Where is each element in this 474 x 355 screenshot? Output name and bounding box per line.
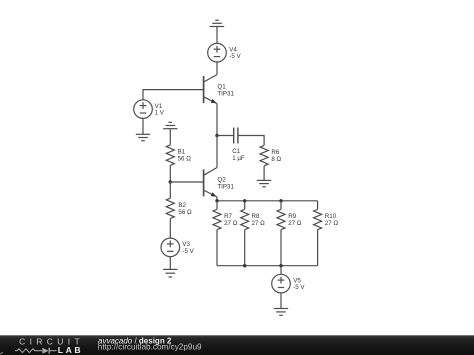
transistor Q2 TIP31 xyxy=(204,168,217,197)
svg-text:27 Ω: 27 Ω xyxy=(252,220,266,227)
wire C1 to R6 xyxy=(238,136,264,146)
ground below V1 xyxy=(136,118,150,140)
wire node to Q2 collector xyxy=(216,136,218,168)
transistor Q1 TIP31 xyxy=(204,75,217,104)
top rail wire xyxy=(217,200,318,202)
wire V1 to Q1 base xyxy=(143,90,204,100)
logo lead mark bottom-left xyxy=(0,352,3,355)
logo resistor squiggle xyxy=(15,349,42,353)
wire node to Q2 base xyxy=(170,181,203,183)
ground (flipped) above V4 xyxy=(210,20,224,43)
svg-text:27 Ω: 27 Ω xyxy=(288,220,302,227)
ground (flipped) above B1 xyxy=(163,122,177,145)
svg-text:56 Ω: 56 Ω xyxy=(178,209,192,216)
ground below V3 xyxy=(163,257,177,277)
svg-text:TIP31: TIP31 xyxy=(217,183,234,190)
capacitor C1 xyxy=(234,128,238,144)
voltage source V3 xyxy=(161,238,180,257)
resistor R6 xyxy=(260,145,268,165)
svg-text:56 Ω: 56 Ω xyxy=(178,156,192,163)
wire node to C1 left plate xyxy=(217,135,233,137)
wire B1 to node xyxy=(169,165,171,182)
wire Q1 emitter to node at C1 xyxy=(216,104,218,136)
svg-text:LAB: LAB xyxy=(58,345,83,355)
svg-text:1 µF: 1 µF xyxy=(232,155,245,162)
resistor R9 with leads xyxy=(277,201,285,266)
footer bar xyxy=(0,335,474,355)
bottom rail wire xyxy=(217,265,318,267)
logo diode xyxy=(42,348,48,354)
junction dot bottom rail/R8 xyxy=(243,264,246,267)
ground below R6 xyxy=(257,180,271,186)
wire B2 to V3 xyxy=(169,219,171,239)
resistor R10 with leads xyxy=(314,201,322,266)
wire node to B2 xyxy=(169,182,171,198)
svg-text:27 Ω: 27 Ω xyxy=(325,220,339,227)
svg-text:-5 V: -5 V xyxy=(293,284,305,291)
voltage source V4 xyxy=(208,43,227,62)
resistor R7 with leads xyxy=(213,201,221,266)
resistor B2 xyxy=(166,198,174,218)
junction dot rail/R8 xyxy=(243,199,246,202)
node junction B1/B2/Q2 base xyxy=(169,180,172,183)
junction dot rail/R9 xyxy=(279,199,282,202)
svg-text:-5 V: -5 V xyxy=(182,248,194,255)
svg-text:-5 V: -5 V xyxy=(229,53,241,60)
ground below V5 xyxy=(274,293,288,315)
voltage source V1 xyxy=(134,100,153,119)
resistor B1 xyxy=(166,145,174,165)
svg-text:8 Ω: 8 Ω xyxy=(271,156,281,163)
svg-text:1 V: 1 V xyxy=(155,110,165,117)
wire Q2 emitter to top rail xyxy=(216,197,218,201)
svg-text:http://circuitlab.com/cy2p9u9: http://circuitlab.com/cy2p9u9 xyxy=(98,343,202,352)
wire rail to V5 xyxy=(280,266,282,275)
junction dot bottom rail/V5 xyxy=(279,264,282,267)
junction dot emitter/R7/rail xyxy=(215,199,218,202)
svg-text:27 Ω: 27 Ω xyxy=(224,220,238,227)
svg-text:TIP31: TIP31 xyxy=(217,90,234,97)
voltage source V5 xyxy=(272,274,291,293)
resistor R8 with leads xyxy=(241,201,249,266)
wire V4 to Q1 collector xyxy=(216,62,218,75)
wire R6 to ground xyxy=(263,166,265,181)
node junction emitter/C1 xyxy=(215,134,218,137)
